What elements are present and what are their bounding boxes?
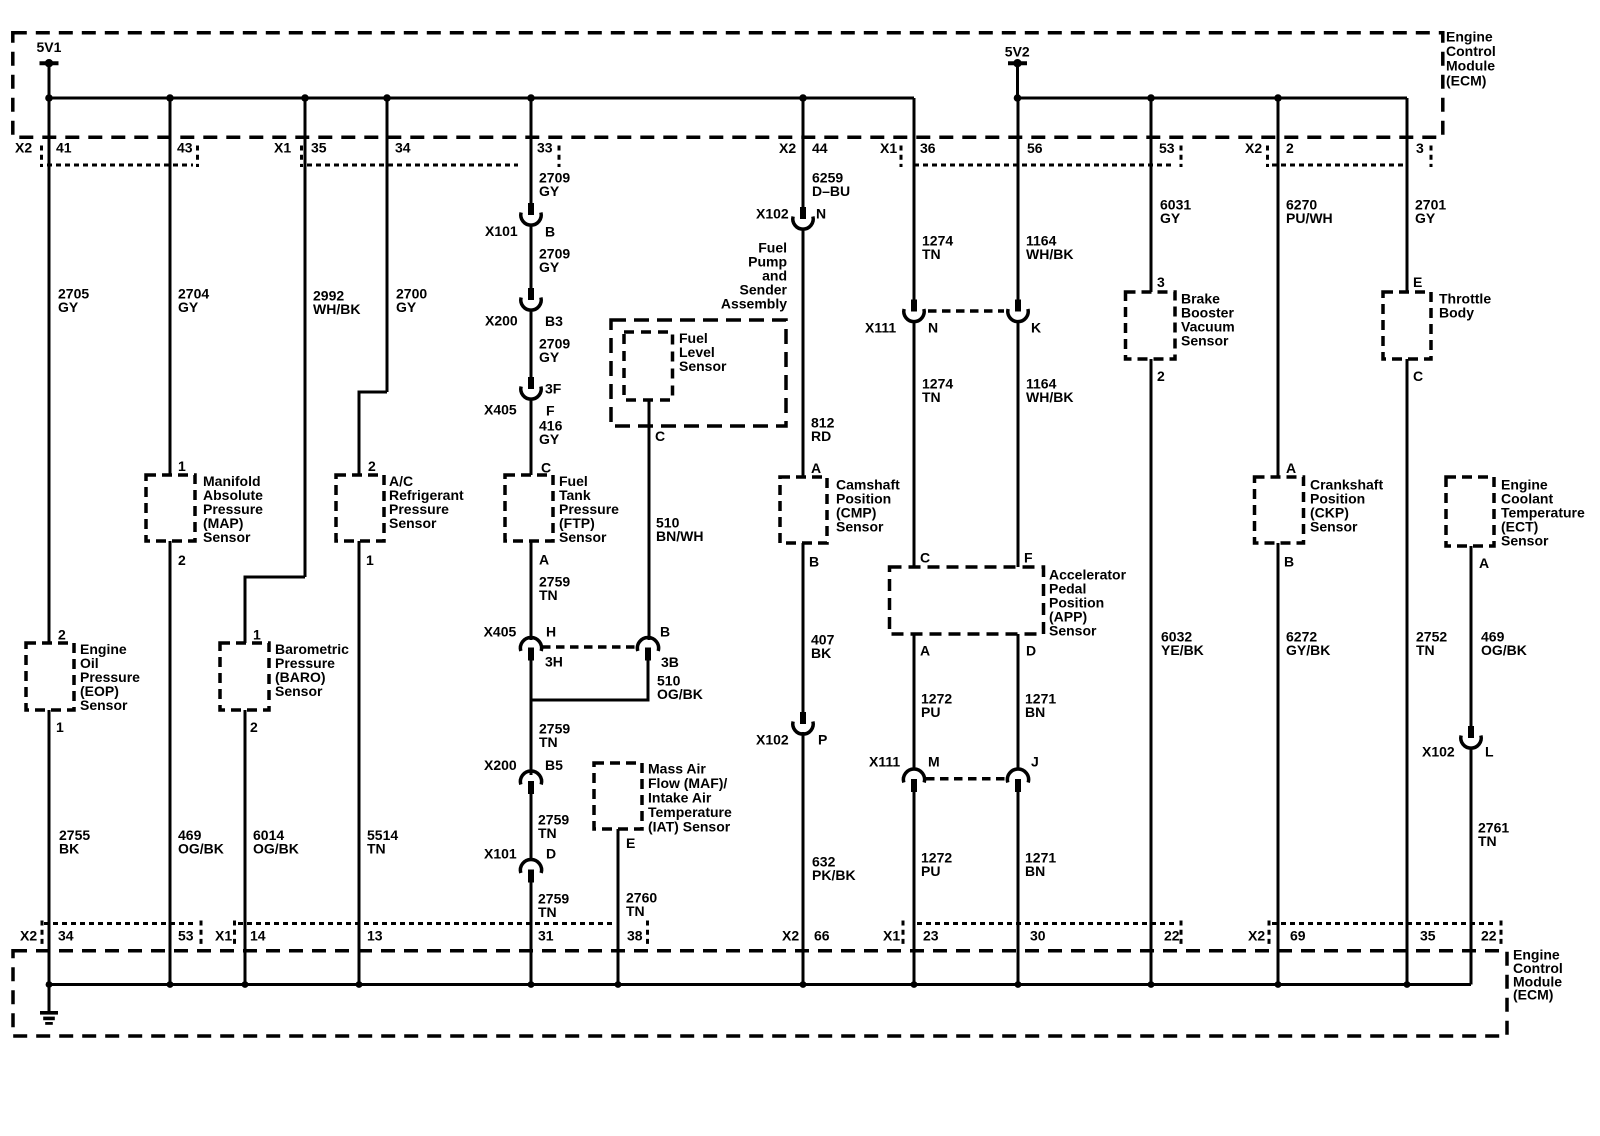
svg-text:2: 2 [58,627,66,643]
svg-text:WH/BK: WH/BK [1026,246,1073,262]
wire label 5514 TN [367,827,398,857]
svg-text:D: D [546,846,556,862]
pin E label (throttle body top) [1413,274,1422,290]
svg-text:B: B [1284,554,1294,570]
svg-text:1: 1 [253,627,261,643]
pin 36 label [920,140,936,156]
wire 2700 GY (ECM 34 to A/C pressure sensor) [359,98,387,475]
svg-text:35: 35 [311,140,327,156]
CKP sensor box [1255,477,1304,543]
pin 1 label (BARO top) [253,627,261,643]
in-line connector X102 pin L [1422,726,1494,760]
svg-text:Sensor: Sensor [275,683,323,699]
wire 1164 WH/BK segment (ECM 56 to X111) [1017,98,1020,300]
wire 2709 GY segment (ECM 33 to X101) [530,98,533,204]
CMP sensor label [836,477,900,535]
pin 44 label [812,140,828,156]
pin A label (FTP bottom) [539,552,549,568]
pin A label (CMP top) [811,460,821,476]
svg-text:5V1: 5V1 [37,39,62,55]
in-line connector X102 pin N [756,206,826,230]
svg-text:44: 44 [812,140,828,156]
svg-text:33: 33 [537,140,553,156]
in-line connector X200 pin B5 [484,757,563,794]
svg-text:X1: X1 [883,928,900,944]
in-line connector X102 pin P [756,712,827,748]
svg-text:GY: GY [1160,210,1181,226]
svg-text:N: N [928,320,938,336]
wire label 2761 TN [1478,820,1509,850]
svg-text:5V2: 5V2 [1005,44,1030,60]
wire 6014 OG/BK (BARO to ECM X1-14) [244,710,247,985]
wire label 2709 GY (1) [539,170,570,200]
wire 6270 PU/WH (ECM X2-2 to CKP sensor) [1277,98,1280,477]
pin 22 label (bottom second) [1481,928,1497,944]
pin F label (APP top right) [1024,550,1033,566]
svg-text:(IAT) Sensor: (IAT) Sensor [648,819,731,835]
top pin row separator ticks [42,146,1432,168]
svg-text:X101: X101 [485,223,518,239]
svg-text:Sensor: Sensor [836,519,884,535]
wire label 6032 YE/BK [1161,629,1204,659]
svg-text:GY: GY [539,183,560,199]
svg-text:13: 13 [367,928,383,944]
Fuel Level Sensor box [624,332,673,400]
wire label 2759 TN (3) [538,812,569,842]
svg-text:X102: X102 [1422,744,1455,760]
svg-text:Control: Control [1446,43,1496,59]
wire 1272 PU segment (APP to X111) [913,634,916,770]
wire 2709 GY segment (X200 to X405) [530,310,533,378]
Brake Booster Vacuum Sensor label [1181,291,1235,349]
svg-text:X405: X405 [484,624,517,640]
pin 13 label (bottom) [367,928,383,944]
pin 2 label (BARO bottom) [250,719,258,735]
wire 469 OG/BK (MAP to ECM 53) [169,541,172,985]
wire 2759 TN segment (FTP to X405) [530,541,533,640]
in-line connector X200 pin B3 [485,288,563,329]
pin 35 label [311,140,327,156]
wire label 1274 TN (2) [922,376,953,406]
bottom pin row dashed overline [44,922,1496,925]
wire 6032 YE/BK (BBV sensor to ECM 22) [1150,359,1153,985]
wire label 469 OG/BK [178,827,224,857]
svg-text:L: L [1485,744,1494,760]
svg-text:P: P [818,732,827,748]
wire 2761 TN (X102 to ECM 22) [1470,747,1473,985]
svg-text:TN: TN [922,389,941,405]
pin 31 label (bottom) [538,928,554,944]
X405 connector dashed link H-B [542,645,637,649]
wire 407 BK (CMP to X102) [802,543,805,713]
wire 2759 TN segment (X405 to X200) [531,660,536,775]
wire 2992 WH/BK (ECM X1-35 to BARO sensor) [245,98,305,643]
pin 1 label (A/C bottom) [366,552,374,568]
pin 34 label [395,140,411,156]
wire 6272 GY/BK (CKP to ECM X2-69) [1277,543,1280,985]
wire 2701 GY (ECM 3 to throttle body) [1406,98,1409,292]
svg-text:OG/BK: OG/BK [178,841,224,857]
svg-text:BN/WH: BN/WH [656,528,703,544]
svg-text:Sensor: Sensor [1501,533,1549,549]
svg-text:A: A [811,460,821,476]
in-line connector X101 pin D [484,846,556,883]
wire 1271 BN segment (X111 to ECM 30) [1017,792,1020,985]
wire 469 OG/BK (ECT to X102) [1470,546,1473,727]
CKP sensor label [1310,477,1383,535]
svg-text:GY: GY [539,349,560,365]
svg-text:22: 22 [1481,928,1497,944]
junction dots on ground bus [46,981,1411,988]
5V2 bus wire [1018,97,1408,100]
svg-text:K: K [1031,320,1041,336]
Throttle Body box [1383,292,1431,359]
ECM X1 connector label (bottom middle) [883,928,900,944]
svg-text:GY: GY [539,259,560,275]
svg-text:E: E [626,835,635,851]
svg-text:A: A [1286,460,1296,476]
svg-text:1: 1 [56,719,64,735]
ECT sensor box [1446,477,1494,546]
pin 1 label (MAP top) [178,458,186,474]
pin 43 label [177,140,193,156]
svg-text:X2: X2 [20,928,37,944]
in-line connector X101 pin B [485,203,555,240]
svg-text:38: 38 [627,928,643,944]
svg-text:GY: GY [178,299,199,315]
wire label 416 GY [539,418,563,448]
svg-text:3F: 3F [545,381,562,397]
top pin row dashed underline [47,164,1403,167]
svg-text:X2: X2 [1248,928,1265,944]
wire 2704 GY (ECM 43 to MAP sensor) [169,98,172,475]
pin C label (throttle body bottom) [1413,368,1423,384]
wire label 2759 TN (4) [538,891,569,921]
svg-text:PU/WH: PU/WH [1286,210,1333,226]
pin E label (MAF bottom) [626,835,635,851]
svg-text:35: 35 [1420,928,1436,944]
svg-text:E: E [1413,274,1422,290]
ground tap wire [48,985,51,1013]
svg-text:53: 53 [1159,140,1175,156]
ECM X2 connector label (bottom left) [20,928,37,944]
wire label 1271 BN (2) [1025,850,1056,880]
svg-text:31: 31 [538,928,554,944]
svg-text:(ECM): (ECM) [1513,987,1553,1003]
Brake Booster Vacuum Sensor box [1126,292,1176,359]
svg-text:PK/BK: PK/BK [812,867,856,883]
svg-text:36: 36 [920,140,936,156]
ECM X2 connector label (top right) [1245,140,1262,156]
svg-text:TN: TN [1478,833,1497,849]
Fuel Pump and Sender Assembly box [611,320,786,426]
svg-text:WH/BK: WH/BK [1026,389,1073,405]
svg-text:Sensor: Sensor [1049,623,1097,639]
wire 416 GY (X405 to FTP sensor) [530,399,533,475]
pin 22 label (bottom first) [1164,928,1180,944]
svg-text:X2: X2 [1245,140,1262,156]
pin 33 label [537,140,553,156]
wire 2759 TN segment (X200 to X101) [530,794,533,860]
svg-text:B: B [660,624,670,640]
wire 1271 BN segment (APP to X111) [1017,634,1020,770]
svg-text:Body: Body [1439,305,1474,321]
svg-text:Sensor: Sensor [1181,333,1229,349]
svg-text:3: 3 [1157,274,1165,290]
svg-text:X102: X102 [756,732,789,748]
wire label 632 PK/BK [812,854,856,884]
svg-text:TN: TN [539,734,558,750]
pin 41 label [56,140,72,156]
wire 1164 WH/BK segment (X111 to APP sensor) [1017,322,1020,567]
svg-text:X200: X200 [484,757,517,773]
junction dots on 5V1 bus [45,94,807,102]
svg-text:A: A [920,643,930,659]
MAF/IAT sensor box [594,763,642,829]
in-line connector X405 pin F [484,377,562,419]
svg-text:66: 66 [814,928,830,944]
svg-text:X2: X2 [15,140,32,156]
svg-text:2: 2 [178,552,186,568]
svg-text:J: J [1031,754,1039,770]
svg-text:X200: X200 [485,313,518,329]
wire label 1271 BN (1) [1025,691,1056,721]
svg-text:23: 23 [923,928,939,944]
svg-text:RD: RD [811,428,831,444]
ECM X2 connector label (bottom middle) [782,928,799,944]
svg-text:2: 2 [250,719,258,735]
in-line connector X111 pin M [869,754,940,793]
in-line connector X111 pin J [1007,754,1038,793]
svg-text:Sensor: Sensor [80,697,128,713]
wire label 510 OG/BK [657,673,703,703]
svg-text:X1: X1 [274,140,291,156]
svg-text:Engine: Engine [1446,29,1493,45]
wire label 6031 GY [1160,197,1191,227]
pin B label (CMP bottom) [809,554,819,570]
ECM X1 connector label (top middle) [880,140,897,156]
svg-text:34: 34 [395,140,411,156]
in-line connector X111 pin K [1008,300,1041,336]
svg-text:TN: TN [626,903,645,919]
wire 510 BN/WH (fuel level sensor to X405) [648,400,651,640]
pin C label (APP top left) [920,550,930,566]
svg-text:BK: BK [59,841,79,857]
wire label 2752 TN [1416,629,1447,659]
svg-text:X111: X111 [865,320,896,336]
pin 2 label (BBV bottom) [1157,368,1165,384]
pin 2 label [1286,140,1294,156]
wire label 2759 TN (1) [539,574,570,604]
svg-text:C: C [920,550,930,566]
pin 2 label (EOP top) [58,627,66,643]
svg-text:TN: TN [367,841,386,857]
wire label 6270 PU/WH [1286,197,1333,227]
svg-text:X1: X1 [215,928,232,944]
ECT sensor label [1501,477,1585,549]
svg-text:D–BU: D–BU [812,183,850,199]
wire label 2992 WH/BK [313,288,360,318]
svg-text:Sensor: Sensor [559,529,607,545]
wire label 1164 WH/BK (2) [1026,376,1073,406]
svg-text:C: C [655,428,665,444]
5V1 bus wire [49,97,914,100]
svg-text:BN: BN [1025,704,1045,720]
BARO sensor label [275,641,349,699]
svg-text:Assembly: Assembly [721,296,787,312]
wire 5V1 to bus [48,63,51,98]
wire label 2755 BK [59,827,90,857]
svg-text:D: D [1026,643,1036,659]
A/C refrigerant pressure sensor box [336,475,384,541]
pin B label (CKP bottom) [1284,554,1294,570]
svg-text:3B: 3B [661,654,679,670]
svg-text:69: 69 [1290,928,1306,944]
svg-text:M: M [928,754,940,770]
wire label 812 RD [811,415,835,445]
wire 1274 TN segment (ECM X1-36 to X111) [913,98,916,300]
APP sensor label [1049,567,1127,639]
svg-text:B5: B5 [545,757,563,773]
pin C label (fuel level sensor) [655,428,665,444]
svg-text:GY: GY [1415,210,1436,226]
svg-text:X2: X2 [779,140,796,156]
svg-text:34: 34 [58,928,74,944]
wire 5514 TN (A/C sensor to ECM 13) [358,541,361,985]
ECM bottom label [1513,947,1563,1003]
svg-text:N: N [816,206,826,222]
ECM bottom box (Engine Control Module outline) [13,951,1507,1036]
pin 53 label (bottom) [178,928,194,944]
5V1 reference terminal [37,39,62,67]
pin 23 label (bottom) [923,928,939,944]
ECM X2 connector label (top middle) [779,140,796,156]
wire label 1272 PU (2) [921,850,952,880]
FTP sensor label [559,473,619,545]
ECM X2 connector label (top left) [15,140,32,156]
svg-text:2: 2 [1286,140,1294,156]
svg-text:X2: X2 [782,928,799,944]
pin 1 label (EOP bottom) [56,719,64,735]
svg-text:B: B [545,224,555,240]
X111 connector dashed link N-K [928,309,1004,313]
svg-text:BN: BN [1025,863,1045,879]
svg-text:X405: X405 [484,402,517,418]
wire label 6272 GY/BK [1286,629,1330,659]
wire label 2704 GY [178,286,209,316]
Throttle Body label [1439,291,1491,321]
svg-text:BK: BK [811,645,831,661]
pin 2 label (A/C top) [368,458,376,474]
wire label 407 BK [811,632,835,662]
wire label 2701 GY [1415,197,1446,227]
svg-text:PU: PU [921,863,940,879]
wire 2755 BK (EOP to ECM X2-34) [48,710,51,985]
wire 2760 TN (MAF to ECM 38) [617,829,620,985]
wire 6259 D-BU (ECM X2-44 to X102) [802,98,805,208]
A/C refrigerant pressure sensor label [389,473,464,531]
pin D label (APP bottom right) [1026,643,1036,659]
svg-text:C: C [1413,368,1423,384]
svg-text:GY/BK: GY/BK [1286,642,1330,658]
junction dots on 5V2 bus [1014,94,1282,102]
in-line connector X405 pin H [484,624,563,670]
5V2 reference terminal [1005,44,1030,68]
svg-text:A: A [539,552,549,568]
pin 30 label (bottom) [1030,928,1046,944]
svg-text:C: C [541,460,551,476]
in-line connector X405 pin B [637,624,679,671]
ECM X1 connector label (bottom left) [215,928,232,944]
svg-text:3H: 3H [545,654,563,670]
svg-text:3: 3 [1416,140,1424,156]
wire label 6259 D-BU [812,170,850,200]
pin A label (APP bottom left) [920,643,930,659]
pin 2 label (MAP bottom) [178,552,186,568]
APP sensor box [890,567,1044,634]
wire label 1272 PU (1) [921,691,952,721]
svg-text:Sensor: Sensor [679,358,727,374]
pin 35 label (bottom) [1420,928,1436,944]
svg-text:TN: TN [922,246,941,262]
BARO sensor box [220,643,269,710]
wire 2709 GY segment (X101 to X200) [530,225,533,289]
pin 14 label (bottom) [250,928,266,944]
wire 6031 GY (ECM 53 to brake booster vacuum sensor) [1150,98,1153,292]
pin A label (CKP top) [1286,460,1296,476]
wire label 2709 GY (3) [539,336,570,366]
wire 2705 GY (ECM X2-41 to EOP sensor) [48,98,51,643]
wire 1272 PU segment (X111 to ECM X1-23) [913,792,916,985]
svg-text:TN: TN [538,904,557,920]
svg-text:TN: TN [1416,642,1435,658]
wire 5V2 to bus [1016,63,1019,98]
svg-text:1: 1 [366,552,374,568]
svg-text:WH/BK: WH/BK [313,301,360,317]
svg-text:TN: TN [538,825,557,841]
svg-text:TN: TN [539,587,558,603]
ground bus wire [49,983,1471,986]
pin 53 label [1159,140,1175,156]
pin 34 label (bottom) [58,928,74,944]
svg-text:41: 41 [56,140,72,156]
wire label 2760 TN [626,890,657,920]
FTP sensor box [505,475,553,541]
svg-text:14: 14 [250,928,266,944]
wire label 6014 OG/BK [253,827,299,857]
pin 56 label [1027,140,1043,156]
pin 3 label (BBV top) [1157,274,1165,290]
svg-text:Sensor: Sensor [203,529,251,545]
svg-text:56: 56 [1027,140,1043,156]
svg-text:F: F [1024,550,1033,566]
svg-text:Module: Module [1446,58,1495,74]
pin 3 label [1416,140,1424,156]
wire label 469 OG/BK (ECT) [1481,629,1527,659]
svg-text:OG/BK: OG/BK [1481,642,1527,658]
MAP sensor label [203,473,263,545]
ECM X1 connector label (top) [274,140,291,156]
svg-text:F: F [546,403,555,419]
ECM top label [1446,29,1496,89]
svg-text:X101: X101 [484,846,517,862]
svg-text:30: 30 [1030,928,1046,944]
pin A label (ECT bottom) [1479,555,1489,571]
svg-text:GY: GY [58,299,79,315]
Fuel Level Sensor label [679,330,727,374]
EOP sensor label [80,641,140,713]
MAP sensor box [146,475,195,541]
